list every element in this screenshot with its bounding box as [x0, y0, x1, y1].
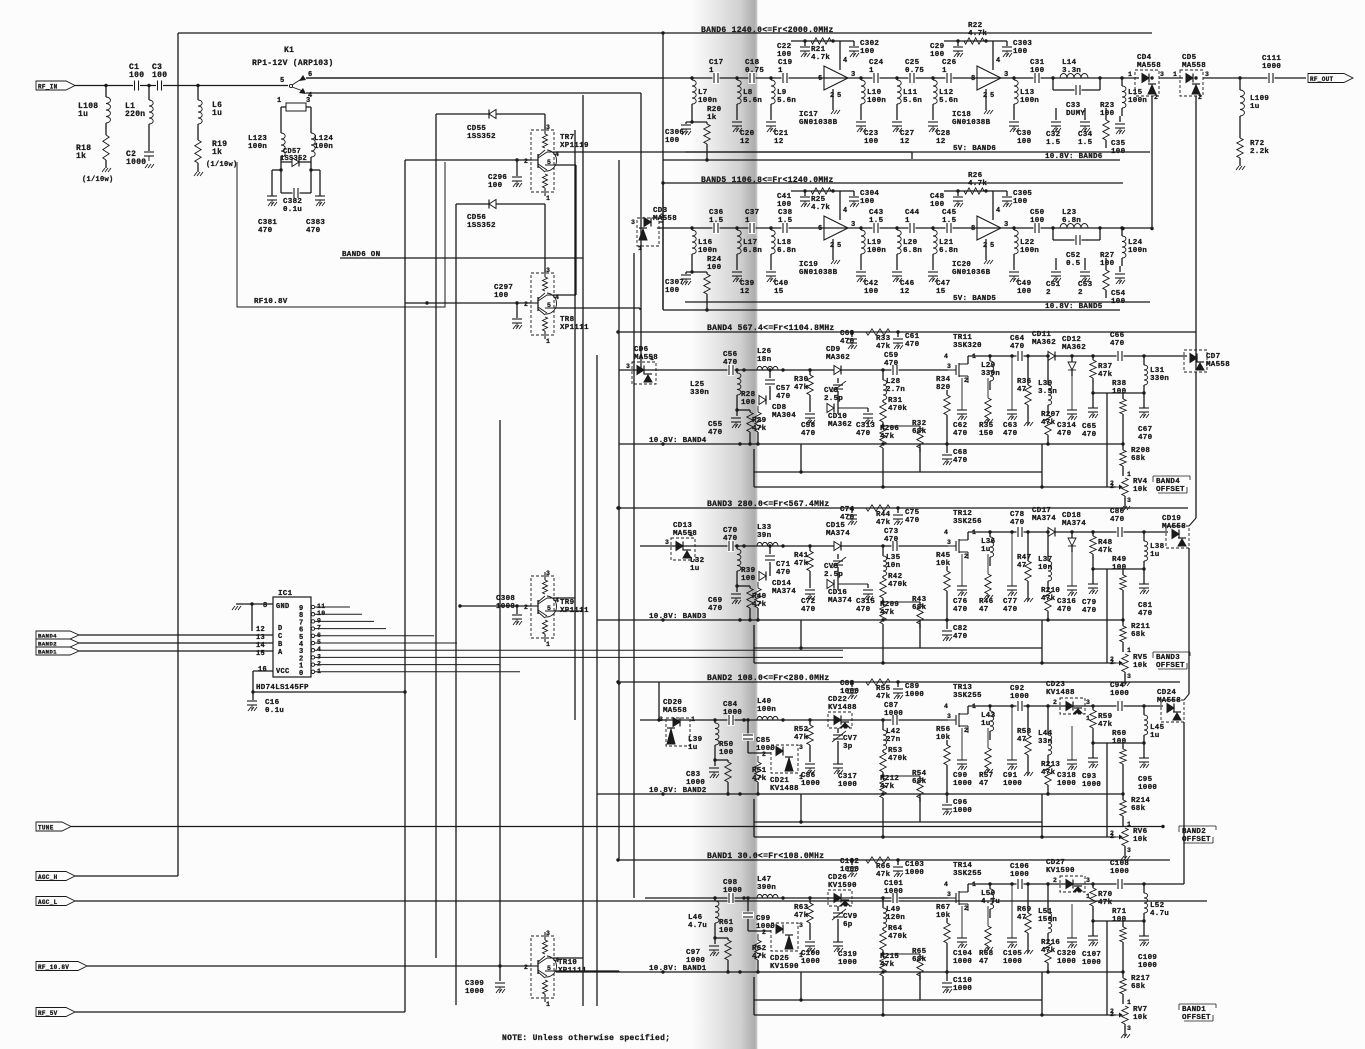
- svg-text:470: 470: [953, 430, 968, 438]
- capacitor C316: [1071, 552, 1073, 586]
- capacitor C90: [961, 728, 963, 760]
- wire R37 bottom node: [1093, 742, 1144, 744]
- svg-text:C48: C48: [930, 193, 945, 201]
- wire CD56 to TR8 pin3: [544, 204, 546, 273]
- svg-text:100: 100: [152, 71, 167, 80]
- svg-text:R65: R65: [912, 948, 927, 956]
- wire vertical x801: [800, 620, 802, 648]
- svg-text:C314: C314: [1057, 422, 1076, 430]
- capacitor C67: [1143, 393, 1145, 408]
- svg-text:HD74LS145FP: HD74LS145FP: [256, 684, 309, 692]
- svg-text:R52: R52: [794, 726, 809, 734]
- svg-text:C23: C23: [864, 130, 879, 138]
- svg-text:1: 1: [546, 1001, 550, 1008]
- svg-text:470: 470: [1057, 430, 1072, 438]
- svg-text:C108: C108: [1110, 860, 1129, 868]
- svg-text:K1: K1: [284, 46, 294, 55]
- ground below R18: [102, 168, 111, 172]
- resistor R52: [808, 718, 811, 721]
- resistor R58: [1026, 704, 1029, 707]
- svg-text:2: 2: [830, 92, 835, 100]
- capacitor C45: [946, 222, 953, 234]
- svg-text:C61: C61: [905, 333, 920, 341]
- resistor R30: [808, 368, 811, 371]
- diode CD26 KV1590 on main line: [828, 890, 852, 906]
- svg-text:4: 4: [944, 881, 948, 888]
- svg-text:KV1590: KV1590: [770, 963, 799, 971]
- svg-text:C110: C110: [953, 977, 972, 985]
- inductor L18: [769, 226, 772, 229]
- inductor L17: [735, 226, 738, 229]
- wire relay coil left leg: [281, 106, 286, 108]
- svg-text:47k: 47k: [1041, 419, 1056, 427]
- svg-text:100n: 100n: [757, 706, 776, 714]
- svg-text:R25: R25: [811, 196, 826, 204]
- wire bus x575: [574, 130, 576, 720]
- svg-text:68k: 68k: [1131, 983, 1146, 991]
- svg-text:C81: C81: [1138, 602, 1153, 610]
- capacitor C39: [732, 271, 742, 273]
- inductor L38: [1142, 530, 1145, 533]
- svg-text:R207: R207: [1041, 411, 1060, 419]
- diode CD3 MA558: [637, 218, 659, 246]
- svg-text:100: 100: [860, 48, 875, 56]
- svg-text:1u: 1u: [1150, 551, 1160, 559]
- svg-text:R35: R35: [979, 422, 994, 430]
- svg-text:IC1: IC1: [278, 590, 293, 598]
- inductor L26 series: [757, 366, 778, 370]
- wires IC1 outputs fanning right: [315, 606, 350, 608]
- capacitor C77: [1011, 532, 1013, 586]
- svg-text:C57: C57: [776, 385, 790, 393]
- svg-text:C31: C31: [1030, 59, 1045, 67]
- wire bus x456: [455, 204, 457, 1005]
- svg-text:2: 2: [964, 905, 968, 912]
- svg-text:R41: R41: [794, 552, 809, 560]
- capacitor C381: [279, 168, 282, 171]
- svg-text:R31: R31: [888, 397, 903, 405]
- svg-text:BAND2: BAND2: [38, 641, 57, 648]
- svg-text:MA558: MA558: [1162, 523, 1186, 531]
- capacitor C16: [252, 692, 254, 700]
- svg-text:R22: R22: [968, 22, 983, 30]
- svg-text:1000: 1000: [1138, 784, 1157, 792]
- svg-text:2.5p: 2.5p: [824, 571, 843, 579]
- svg-text:3: 3: [947, 539, 951, 546]
- wire band main line: [306, 77, 1135, 79]
- svg-text:470: 470: [1082, 431, 1097, 439]
- svg-text:470: 470: [1082, 607, 1097, 615]
- svg-text:3: 3: [851, 71, 856, 79]
- diode CD17 MA374: [1048, 528, 1055, 537]
- svg-text:R68: R68: [979, 950, 994, 958]
- svg-text:3: 3: [851, 221, 856, 229]
- wire vertical x920: [919, 972, 921, 1000]
- capacitor C98: [728, 892, 735, 904]
- svg-text:C60: C60: [840, 330, 855, 338]
- transistor TR9 XP1111: [531, 576, 554, 638]
- inductor L49: [881, 896, 884, 899]
- inductor L51: [1046, 882, 1049, 885]
- wire TR9 pin4 out: [554, 597, 575, 599]
- wire CD4 to band5 output: [1151, 96, 1153, 229]
- inductor L19: [859, 226, 862, 229]
- wire bus x597: [596, 355, 598, 1006]
- svg-text:100: 100: [1112, 564, 1127, 572]
- svg-text:C26: C26: [942, 59, 957, 67]
- capacitor C46: [892, 271, 902, 273]
- inductor L42: [881, 718, 884, 721]
- svg-text:CD22: CD22: [828, 696, 847, 704]
- wire relay coil right leg: [306, 106, 311, 108]
- svg-text:MA304: MA304: [772, 412, 796, 420]
- svg-text:4.7k: 4.7k: [968, 30, 987, 38]
- svg-text:6.8n: 6.8n: [777, 247, 796, 255]
- wire to CD56: [456, 203, 545, 205]
- resistor R69: [1026, 882, 1029, 885]
- svg-text:C308: C308: [496, 595, 515, 603]
- inductor L109: [1239, 78, 1241, 90]
- svg-text:33n: 33n: [1038, 738, 1053, 746]
- svg-text:C318: C318: [1057, 772, 1076, 780]
- potentiometer RV7: [1122, 1006, 1128, 1024]
- relay coil box: [286, 103, 306, 111]
- svg-text:100n: 100n: [867, 97, 886, 105]
- svg-text:68k: 68k: [912, 778, 927, 786]
- svg-text:1: 1: [1127, 999, 1131, 1006]
- svg-text:1u: 1u: [212, 109, 222, 118]
- svg-text:4: 4: [996, 207, 1001, 215]
- svg-text:C100: C100: [801, 950, 820, 958]
- svg-text:100: 100: [741, 575, 756, 583]
- svg-text:6p: 6p: [843, 921, 853, 929]
- inductor L32 shunt: [736, 546, 738, 549]
- svg-text:C80: C80: [1110, 508, 1125, 516]
- inductor L20: [895, 226, 898, 229]
- svg-text:C21: C21: [774, 130, 789, 138]
- capacitor C81: [1143, 569, 1145, 584]
- svg-text:1.5: 1.5: [942, 217, 957, 225]
- svg-text:R72: R72: [1250, 140, 1265, 148]
- inductor L24: [1120, 226, 1123, 229]
- svg-text:1: 1: [745, 217, 750, 225]
- svg-text:C53: C53: [1078, 281, 1093, 289]
- resistor R33: [866, 329, 890, 335]
- resistor R35: [987, 378, 989, 398]
- svg-text:470: 470: [1003, 606, 1018, 614]
- capacitor C19: [782, 72, 789, 84]
- wire band5 feed vertical: [640, 93, 642, 370]
- svg-text:C59: C59: [884, 352, 899, 360]
- svg-text:IC17: IC17: [799, 111, 818, 119]
- svg-text:C58: C58: [801, 422, 816, 430]
- svg-text:470: 470: [1010, 519, 1025, 527]
- svg-text:10.8V: BAND2: 10.8V: BAND2: [649, 787, 707, 795]
- svg-text:BAND3: BAND3: [1156, 654, 1180, 662]
- svg-text:3.3n: 3.3n: [1038, 388, 1057, 396]
- inductor L21: [931, 226, 934, 229]
- svg-text:L24: L24: [1128, 239, 1143, 247]
- svg-text:470: 470: [723, 535, 738, 543]
- capacitor C105: [1011, 884, 1013, 938]
- inductor L23: [1051, 226, 1054, 229]
- capacitor C3: [156, 80, 163, 92]
- svg-text:330n: 330n: [1150, 375, 1169, 383]
- resistor R28: [735, 408, 738, 411]
- capacitor C70: [728, 540, 735, 552]
- BAND4 connector flag: [36, 631, 79, 639]
- resistor R51: [757, 756, 759, 762]
- svg-text:CD20: CD20: [663, 699, 682, 707]
- svg-text:47: 47: [1017, 736, 1027, 744]
- diode CD57 1SS352: [280, 157, 282, 162]
- wire bus x500: [499, 420, 501, 966]
- inductor L25 shunt: [736, 370, 738, 373]
- inductor L108: [105, 86, 107, 98]
- svg-text:R32: R32: [912, 420, 927, 428]
- svg-text:C315: C315: [856, 598, 875, 606]
- svg-text:R210: R210: [1041, 587, 1060, 595]
- inductor L33 series: [757, 542, 778, 546]
- diode CD10 MA362: [837, 391, 839, 414]
- diode CD22 KV1488 on main line: [828, 712, 852, 728]
- svg-text:4.7k: 4.7k: [811, 54, 830, 62]
- svg-text:5.6n: 5.6n: [777, 97, 796, 105]
- capacitor C296: [516, 160, 518, 176]
- capacitor C82: [945, 618, 948, 621]
- wire R37 bottom node: [1093, 568, 1144, 570]
- diode CD56 1SS352: [489, 200, 496, 209]
- capacitor C94 series: [1117, 700, 1124, 712]
- svg-text:C94: C94: [1110, 682, 1125, 690]
- inductor L50: [988, 882, 991, 885]
- svg-text:3: 3: [546, 124, 550, 131]
- svg-text:C51: C51: [1046, 281, 1061, 289]
- svg-text:R214: R214: [1131, 797, 1150, 805]
- svg-text:68k: 68k: [912, 428, 927, 436]
- wire bus x583: [582, 95, 584, 1006]
- svg-text:MA558: MA558: [663, 707, 687, 715]
- svg-text:KV1488: KV1488: [770, 785, 799, 793]
- resistor R216: [1045, 943, 1051, 963]
- sub-chain cap C57: [769, 370, 771, 378]
- svg-text:L50: L50: [981, 890, 996, 898]
- wire band top frame: [663, 32, 1152, 34]
- wire R37 bottom node: [1093, 920, 1144, 922]
- svg-text:1: 1: [869, 67, 874, 75]
- wire vertical x920: [919, 444, 921, 472]
- svg-text:R53: R53: [888, 747, 903, 755]
- svg-text:GN01038B: GN01038B: [799, 269, 838, 277]
- ground below R19: [194, 172, 203, 176]
- svg-text:(1/10w): (1/10w): [82, 176, 114, 184]
- svg-text:2: 2: [1110, 1008, 1114, 1015]
- svg-text:4: 4: [996, 57, 1001, 65]
- svg-text:10k: 10k: [936, 912, 951, 920]
- resistor R45: [944, 571, 950, 591]
- svg-text:10k: 10k: [1133, 836, 1148, 844]
- svg-text:3: 3: [306, 97, 311, 105]
- capacitor C62: [961, 378, 963, 410]
- svg-text:3: 3: [1160, 71, 1164, 78]
- wire vertical x883: [882, 980, 884, 1015]
- svg-text:1: 1: [546, 338, 550, 345]
- svg-text:L28: L28: [886, 378, 901, 386]
- wire band left entry: [645, 897, 731, 899]
- resistor R214 68k: [1122, 794, 1124, 800]
- svg-text:470: 470: [856, 606, 871, 614]
- svg-text:TR7: TR7: [560, 134, 574, 142]
- resistor R48: [1091, 530, 1094, 533]
- svg-text:10.8V: BAND1: 10.8V: BAND1: [649, 965, 707, 973]
- svg-text:L23: L23: [1062, 209, 1077, 217]
- svg-text:L32: L32: [690, 557, 705, 565]
- svg-text:47: 47: [979, 606, 989, 614]
- svg-text:C69: C69: [708, 597, 723, 605]
- svg-text:AGC_L: AGC_L: [38, 899, 58, 906]
- svg-text:R62: R62: [752, 945, 767, 953]
- svg-text:C35: C35: [1111, 140, 1126, 148]
- diode CD7 MA558: [1184, 350, 1207, 372]
- svg-text:1000: 1000: [1082, 781, 1101, 789]
- svg-text:C381: C381: [258, 219, 277, 227]
- svg-text:4.7u: 4.7u: [1150, 910, 1169, 918]
- svg-text:L9: L9: [777, 89, 787, 97]
- svg-text:100: 100: [930, 51, 945, 59]
- svg-text:1000: 1000: [838, 781, 857, 789]
- RF_5V connector flag: [36, 1008, 75, 1017]
- svg-text:3SK256: 3SK256: [953, 518, 982, 526]
- svg-text:100: 100: [1030, 217, 1045, 225]
- resistor R47: [1026, 530, 1029, 533]
- svg-text:1000: 1000: [884, 710, 903, 718]
- resistor R26: [964, 188, 984, 194]
- capacitor C68: [945, 442, 948, 445]
- svg-text:L49: L49: [886, 906, 901, 914]
- wire RF_10.8V: [87, 965, 531, 967]
- capacitor C30: [1009, 121, 1019, 123]
- diode CD16 MA374: [837, 567, 839, 590]
- capacitor C89: [896, 680, 899, 683]
- svg-text:TR12: TR12: [953, 510, 972, 518]
- svg-text:6: 6: [818, 75, 823, 83]
- svg-text:47: 47: [1017, 914, 1027, 922]
- svg-text:2: 2: [1198, 94, 1202, 101]
- svg-text:TR13: TR13: [953, 684, 972, 692]
- svg-text:68k: 68k: [1131, 455, 1146, 463]
- svg-text:L46: L46: [688, 914, 703, 922]
- svg-text:1.5: 1.5: [869, 217, 884, 225]
- svg-text:2: 2: [762, 929, 766, 936]
- svg-text:5: 5: [990, 92, 995, 100]
- svg-text:2: 2: [524, 158, 528, 165]
- svg-text:2: 2: [830, 242, 835, 250]
- svg-text:C320: C320: [1057, 950, 1076, 958]
- resistor R210: [1045, 591, 1051, 611]
- svg-text:3.3n: 3.3n: [1062, 67, 1081, 75]
- svg-text:C56: C56: [723, 351, 738, 359]
- svg-text:100: 100: [719, 927, 734, 935]
- sub-chain cap C99: [747, 898, 749, 912]
- svg-text:C50: C50: [1030, 209, 1045, 217]
- svg-text:100: 100: [864, 138, 879, 146]
- wire vertical x754: [753, 625, 755, 663]
- resistor R71: [1122, 921, 1124, 927]
- svg-text:NOTE: Unless otherwise specifi: NOTE: Unless otherwise specified;: [502, 1034, 670, 1043]
- wire band top frame line: [618, 859, 1170, 861]
- resistor R211 68k: [1122, 620, 1124, 626]
- svg-text:470: 470: [905, 341, 920, 349]
- svg-text:L45: L45: [1150, 724, 1165, 732]
- svg-text:1SS352: 1SS352: [467, 133, 496, 141]
- transistor TR8 XP1111: [531, 273, 554, 335]
- svg-text:1.5: 1.5: [1078, 139, 1093, 147]
- node at L1: [147, 84, 150, 87]
- svg-text:R37: R37: [1098, 363, 1112, 371]
- capacitor C52: [1052, 228, 1054, 240]
- svg-text:VCC: VCC: [276, 668, 290, 676]
- svg-text:L18: L18: [777, 239, 792, 247]
- svg-text:470: 470: [1110, 340, 1125, 348]
- svg-text:2: 2: [524, 604, 528, 611]
- capacitor C74: [850, 506, 853, 509]
- svg-text:C25: C25: [905, 59, 920, 67]
- svg-text:MA558: MA558: [634, 354, 658, 362]
- svg-text:8: 8: [971, 75, 976, 83]
- resistor R59: [1091, 704, 1094, 707]
- svg-text:R208: R208: [1131, 447, 1150, 455]
- svg-text:CD25: CD25: [770, 955, 789, 963]
- inductor L12: [931, 76, 934, 79]
- capacitor C106 series: [1017, 878, 1024, 890]
- capacitor C56: [728, 364, 735, 376]
- capacitor C55: [736, 410, 738, 416]
- svg-text:100: 100: [741, 399, 756, 407]
- wire band top frame: [663, 182, 1123, 184]
- svg-text:C52: C52: [1066, 252, 1081, 260]
- svg-text:R63: R63: [794, 904, 809, 912]
- wire vertical x801: [800, 444, 802, 472]
- op-amp IC20 GN01036B: [977, 216, 1001, 240]
- svg-text:L30: L30: [1038, 380, 1053, 388]
- svg-text:R49: R49: [1112, 556, 1127, 564]
- svg-text:14: 14: [256, 642, 265, 650]
- potentiometer RV4: [1122, 478, 1128, 496]
- wire TR7 pin5 down to TR8 pin4: [554, 164, 576, 166]
- node at L108: [104, 84, 107, 87]
- svg-text:470: 470: [1138, 610, 1153, 618]
- svg-text:470: 470: [723, 359, 738, 367]
- svg-text:6.8n: 6.8n: [1062, 217, 1081, 225]
- svg-text:470k: 470k: [888, 405, 907, 413]
- capacitor CV3 variable: [837, 378, 839, 383]
- wire FET output line: [968, 355, 1187, 357]
- svg-text:10n: 10n: [1038, 564, 1053, 572]
- diode CD5 MA558: [1180, 70, 1203, 96]
- svg-text:CD26: CD26: [828, 874, 847, 882]
- svg-text:5V: BAND6: 5V: BAND6: [953, 145, 996, 153]
- resistor R44: [866, 505, 890, 511]
- svg-text:R66: R66: [876, 863, 891, 871]
- capacitor C307: [691, 270, 693, 272]
- svg-text:470: 470: [1057, 606, 1072, 614]
- svg-text:MA362: MA362: [1032, 339, 1056, 347]
- svg-text:B: B: [278, 641, 283, 649]
- wire band wiper line: [754, 662, 1116, 664]
- svg-text:47: 47: [1017, 562, 1027, 570]
- wire TR7 pin2 input: [405, 159, 531, 161]
- svg-text:CD4: CD4: [1137, 54, 1152, 62]
